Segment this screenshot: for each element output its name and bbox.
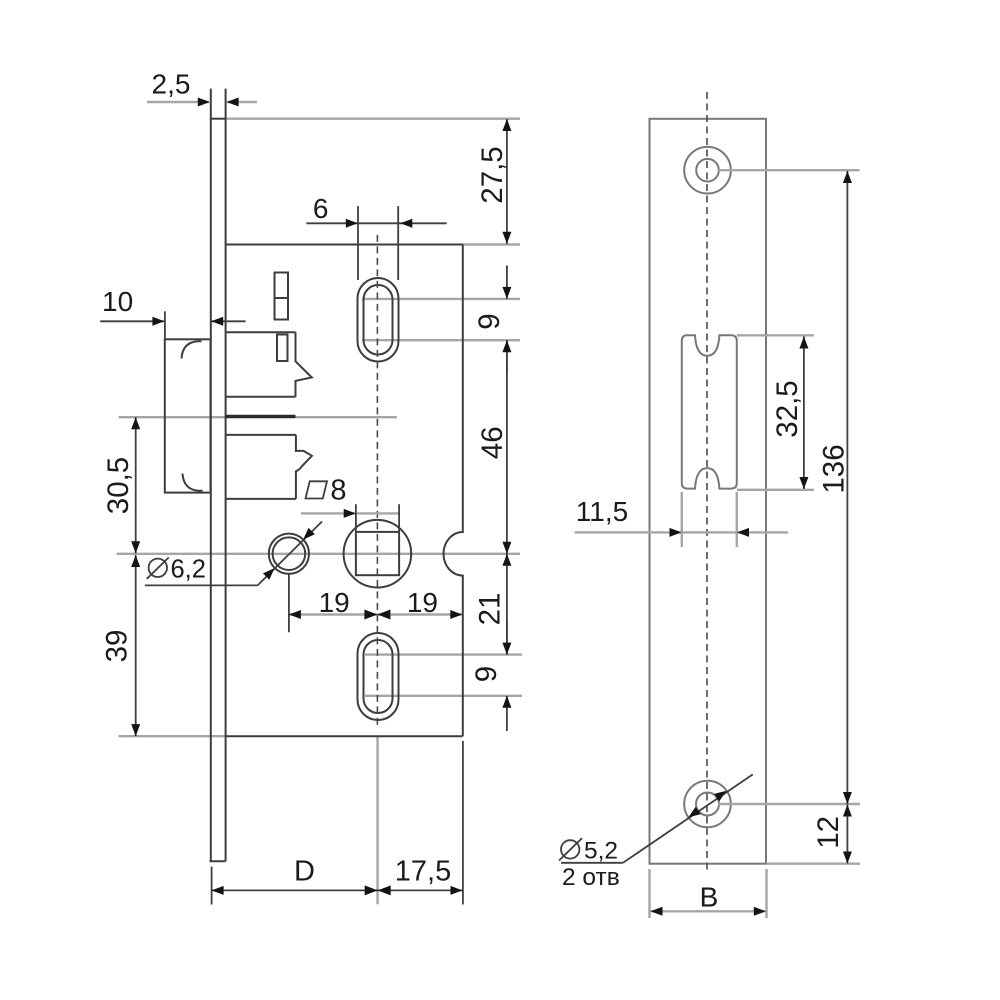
svg-text:30,5: 30,5 [102, 457, 135, 514]
svg-text:6: 6 [313, 193, 329, 224]
svg-text:39: 39 [101, 630, 134, 663]
svg-text:136: 136 [818, 444, 851, 493]
svg-text:8: 8 [330, 475, 346, 507]
svg-text:32,5: 32,5 [771, 380, 804, 437]
svg-text:19: 19 [407, 587, 438, 618]
svg-text:10: 10 [102, 286, 133, 317]
svg-text:46: 46 [476, 426, 509, 459]
svg-text:D: D [294, 856, 315, 888]
svg-text:В: В [700, 882, 719, 913]
svg-text:21: 21 [474, 593, 507, 626]
svg-text:9: 9 [473, 313, 506, 329]
svg-text:2,5: 2,5 [152, 69, 191, 100]
svg-text:6,2: 6,2 [171, 556, 206, 584]
svg-text:12: 12 [812, 816, 845, 849]
svg-text:19: 19 [319, 587, 350, 618]
svg-text:5,2: 5,2 [584, 838, 618, 865]
svg-text:2 отв: 2 отв [562, 864, 620, 891]
svg-text:27,5: 27,5 [476, 146, 509, 203]
svg-text:11,5: 11,5 [576, 496, 628, 527]
svg-text:17,5: 17,5 [395, 856, 451, 888]
svg-text:9: 9 [470, 666, 503, 682]
